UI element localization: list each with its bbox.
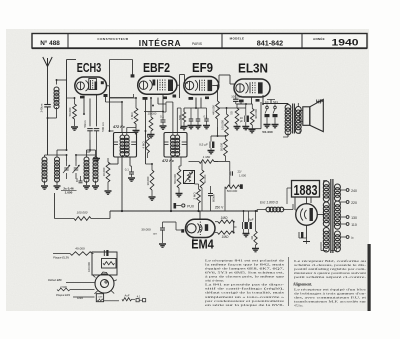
resistor 100.000 screen [218, 108, 229, 136]
text column divider rule [288, 257, 290, 306]
volume potentiometer [184, 171, 195, 184]
svg-text:b: b [352, 236, 354, 240]
svg-text:30.000: 30.000 [141, 228, 151, 232]
IF transformer MF1 [114, 133, 137, 158]
svg-text:5/1.000: 5/1.000 [262, 130, 273, 134]
loudspeaker HP [300, 99, 324, 131]
label 100.000 vertical [87, 262, 91, 272]
antenna coupling coil L1 [48, 80, 67, 118]
label 472 Kc MF2 [161, 159, 174, 163]
svg-text:240: 240 [351, 189, 357, 193]
wire HT 250V line [121, 210, 199, 212]
capacitor 0,1 screen [160, 112, 167, 129]
wire ECH3 anode to MF1 [106, 97, 123, 133]
wire top interstage [110, 97, 136, 99]
resistor 50.000 decoupling [219, 136, 227, 161]
svg-text:PU0: PU0 [187, 205, 194, 209]
scan shadow bar [368, 244, 371, 311]
svg-text:250 V: 250 V [215, 206, 224, 210]
svg-text:1.000: 1.000 [65, 191, 73, 195]
svg-text:AvF: AvF [124, 293, 130, 297]
electrolytic 8µF pair [243, 211, 254, 237]
svg-text:472 Kc: 472 Kc [112, 125, 125, 129]
label Defaut EBF [48, 278, 94, 283]
wire EF9 pins [196, 86, 218, 109]
svg-text:Exc 1.800 Ω: Exc 1.800 Ω [260, 201, 279, 205]
wire junction dots [47, 79, 264, 234]
svg-text:0,1: 0,1 [125, 168, 129, 172]
svg-text:50cm: 50cm [83, 120, 87, 128]
svg-text:1940: 1940 [332, 38, 359, 49]
wire step from detector line [91, 211, 110, 219]
svg-text:300: 300 [76, 177, 79, 182]
svg-text:40.000: 40.000 [75, 247, 85, 251]
svg-text:400.000: 400.000 [254, 109, 258, 119]
label Plaque EF9 [56, 293, 95, 297]
text column 1 [205, 258, 286, 307]
power pentode EL3N [234, 79, 270, 102]
label Plaque EL3N [53, 256, 69, 260]
wire ECH3 frame left [67, 60, 77, 151]
wire 1883 cathode down [299, 225, 310, 244]
svg-text:cm: cm [153, 232, 157, 236]
wire EL3N anode [243, 102, 288, 133]
svg-text:472 Kc: 472 Kc [161, 159, 174, 163]
ground under L3 [54, 186, 61, 189]
resistor AvF [122, 293, 135, 301]
wire EBF2 grid cap [110, 60, 135, 98]
field coil Exc 1.800 ohm [257, 201, 293, 212]
tube label EM4 [191, 236, 214, 251]
svg-text:50.000: 50.000 [203, 174, 207, 183]
svg-text:ANNÉE: ANNÉE [313, 36, 325, 41]
svg-text:MODELE: MODELE [230, 37, 245, 41]
capacitor 0,1 under EF9 [203, 112, 210, 129]
capacitor 0,5 µF [199, 136, 214, 154]
svg-text:500 cm: 500 cm [101, 122, 105, 132]
wire AVC line [110, 210, 257, 212]
switch rotor disc [93, 272, 117, 294]
svg-text:8µF: 8µF [248, 218, 254, 222]
diode-pentode EBF2 [138, 76, 177, 100]
wire detector bus right [214, 161, 230, 163]
svg-text:N° 488: N° 488 [40, 39, 60, 47]
wire MF1 top [110, 128, 137, 133]
resistor 2 MΩ osc grid [130, 98, 140, 134]
svg-text:transformateurs M.F. accordés: transformateurs M.F. accordés sur [294, 300, 368, 304]
capacitor 30.000 cm [141, 222, 166, 247]
resistor 40.000 tone feed [53, 247, 92, 256]
svg-text:100.000: 100.000 [77, 211, 88, 215]
resistor 1 MΩ horizontal [189, 155, 219, 163]
wire screen feed [227, 107, 246, 109]
svg-text:0,5 µF: 0,5 µF [199, 143, 208, 147]
power transformer primary windings [323, 181, 329, 252]
svg-text:1.048: 1.048 [98, 297, 103, 299]
tube label ECH3 [77, 61, 102, 75]
svg-text:0,1: 0,1 [203, 115, 207, 119]
svg-text:µF: µF [240, 120, 243, 123]
terminal b [340, 236, 354, 240]
svg-text:1MΩ: 1MΩ [222, 235, 229, 239]
ground under L2 [41, 186, 48, 189]
svg-text:EF9: EF9 [192, 60, 213, 75]
svg-text:2 MΩ: 2 MΩ [192, 192, 196, 200]
svg-text:25.000: 25.000 [148, 112, 157, 116]
svg-text:100.000: 100.000 [220, 120, 224, 130]
resistor 10.000 osc anode [102, 158, 112, 194]
resistor 1MΩ lower [215, 231, 234, 239]
svg-text:50.000: 50.000 [219, 142, 223, 151]
resistor 2 MΩ AVC [192, 184, 200, 211]
svg-text:472 kc.: 472 kc. [294, 304, 303, 308]
svg-text:10¹: 10¹ [265, 100, 269, 104]
capacitor under EF9 grid b [195, 112, 202, 129]
resistor 500 EBF2 cathode [178, 108, 187, 130]
svg-text:EM4: EM4 [191, 236, 214, 251]
wire transformer leads [321, 181, 337, 251]
capacitor under EF9 grid a [188, 112, 195, 129]
wire EL3N grid cap [219, 75, 235, 84]
svg-text:1MΩ: 1MΩ [221, 216, 228, 220]
tone assembly box [92, 252, 117, 275]
wire EBF2 pins [146, 75, 180, 132]
oscillator coil L4 [84, 150, 89, 185]
pentode EF9 [184, 77, 219, 100]
svg-text:1883: 1883 [294, 182, 318, 199]
resistor 4 ohm [250, 211, 259, 252]
svg-text:PARIS: PARIS [192, 42, 203, 46]
svg-text:Filtre: Filtre [77, 296, 83, 300]
terminal marks [136, 294, 146, 302]
wire detection [146, 131, 153, 164]
resistor 500.000 AVC [225, 184, 243, 211]
capacitor 22/1.000 [230, 162, 247, 187]
terminal 110 [340, 223, 357, 227]
wire EM4 grid line [163, 222, 182, 230]
svg-text:NF1: NF1 [273, 100, 279, 104]
svg-text:500.000: 500.000 [173, 174, 177, 184]
resistor 440.000 [211, 101, 219, 127]
svg-text:Plaque EL3N: Plaque EL3N [53, 256, 69, 260]
svg-text:500.000: 500.000 [227, 189, 238, 193]
tube label EBF2 [143, 60, 170, 75]
svg-text:4 MΩ: 4 MΩ [141, 141, 145, 149]
terminal 220 [340, 201, 357, 205]
wire output transformer leads [283, 103, 300, 137]
magic eye EM4 [181, 211, 215, 242]
svg-text:110: 110 [351, 223, 357, 227]
svg-text:841-842: 841-842 [257, 38, 283, 47]
wire MF1 bottom [108, 157, 130, 166]
wire screen bus [144, 112, 163, 118]
cap 300 padding [76, 176, 83, 183]
svg-text:130: 130 [351, 216, 357, 220]
svg-text:EBF2: EBF2 [143, 60, 170, 75]
capacitor EL3N cathode bypass [233, 95, 239, 105]
capacitor 50cm [83, 120, 93, 152]
svg-text:0,1: 0,1 [160, 115, 164, 119]
text column 2 [293, 259, 368, 308]
svg-text:1 MΩ: 1 MΩ [203, 155, 211, 159]
triode-hexode ECH3 [75, 77, 108, 98]
svg-text:10.000: 10.000 [102, 167, 106, 176]
label 472 Kc MF1 [112, 125, 125, 129]
svg-text:ECH3: ECH3 [77, 61, 102, 75]
label Filtre [77, 296, 83, 300]
wire 1883 connections [287, 188, 324, 218]
resistor 400.000 [250, 104, 257, 129]
tube label EL3N [238, 61, 268, 76]
svg-text:CONSTRUCTEUR: CONSTRUCTEUR [97, 37, 128, 41]
ground under L5 [92, 186, 99, 189]
output transformer primary [285, 105, 291, 135]
power transformer core [331, 179, 333, 253]
wire EF9 anode to EL3N grid [218, 75, 220, 83]
svg-text:100.000: 100.000 [87, 262, 91, 272]
label 5/1.000 tone [262, 130, 273, 134]
wire EF9 bus [184, 98, 207, 113]
svg-text:4,1: 4,1 [137, 294, 141, 298]
resistor 100.000 AVC [74, 211, 91, 221]
padder trimmer CV2 [73, 161, 80, 179]
header title box [32, 34, 367, 49]
capacitor 240cm antenna series [40, 103, 51, 155]
power transformer secondary windings [334, 184, 340, 252]
tube label EF9 [192, 60, 213, 75]
svg-text:50: 50 [230, 111, 234, 115]
antenna [43, 57, 52, 104]
svg-text:240cm: 240cm [40, 103, 44, 112]
svg-text:petit schéma séparé ci-contre.: petit schéma séparé ci-contre. [294, 275, 366, 279]
svg-text:Alignement.: Alignement. [293, 283, 312, 287]
svg-text:Plaque EF9: Plaque EF9 [56, 293, 71, 297]
output transformer core [293, 104, 295, 134]
tone switch capacitors [264, 100, 279, 128]
pick-up jack PU [174, 203, 194, 209]
wire osc coil top [87, 140, 96, 150]
svg-text:30.000: 30.000 [146, 176, 150, 185]
wire EF9 grid cap [180, 75, 189, 84]
label 250 V [215, 206, 224, 210]
svg-text:en série sur la plaque de la 6: en série sur la plaque de la 6V6. [205, 303, 284, 307]
resistor 30.000 vertical [146, 164, 156, 200]
resistor 50 EL3N cathode [230, 104, 241, 130]
wire EBF2 anode right [158, 104, 166, 112]
label 2x0,46/1.000 [61, 187, 77, 195]
label 10/1.000 [231, 95, 242, 99]
svg-text:INTÉGRA: INTÉGRA [139, 37, 182, 48]
resistor 1MΩ upper [215, 216, 233, 224]
ground under L4 [83, 186, 90, 189]
padder trimmer CV1 [63, 161, 70, 179]
resistor 4 MΩ between MF boxes [141, 134, 149, 158]
wire EL3N pins [237, 95, 263, 104]
terminal 130 [340, 216, 357, 220]
tone potentiometer 500.000 [102, 259, 117, 269]
label 2.500 [57, 285, 95, 291]
resistor 50.000 AVC [200, 162, 207, 212]
svg-text:440.000: 440.000 [211, 105, 215, 115]
svg-text:220: 220 [351, 201, 357, 205]
svg-text:10/1.000: 10/1.000 [231, 95, 242, 99]
resistor 50.000 ECH3 grid [67, 98, 79, 130]
wire EM4 right junction [234, 222, 237, 233]
wire MF1 secondary down [121, 157, 123, 211]
resistor 500.000 vertical [173, 166, 183, 197]
capacitor 0,1 under MF1 [125, 166, 135, 181]
svg-text:600cm: 600cm [212, 193, 216, 202]
wire ECH3 pins [84, 60, 110, 132]
tuning coil L2 [42, 155, 47, 185]
switch base box [96, 294, 119, 302]
svg-text:50.000: 50.000 [68, 107, 72, 116]
tuning coil L3 [55, 150, 67, 185]
capacitor 600 cm [208, 186, 216, 211]
electrolytic 10µF EL3N [237, 104, 249, 130]
svg-text:2 MΩ: 2 MΩ [130, 112, 134, 120]
resistor 25.000 [148, 98, 157, 138]
wire coil bus top [45, 155, 96, 161]
terminal 240 [340, 189, 357, 193]
svg-text:500: 500 [178, 115, 182, 120]
wire EF9 anode chain [211, 127, 226, 136]
output transformer secondary [295, 107, 301, 134]
oscillator coil L5 [93, 150, 98, 185]
svg-text:EL3N: EL3N [238, 61, 268, 76]
svg-text:1.000: 1.000 [239, 174, 246, 178]
rectifier label box 1883 [292, 181, 320, 200]
rectifier tube 1883 [296, 204, 318, 226]
capacitor on assembly [104, 250, 108, 256]
IF transformer MF2 [164, 133, 187, 158]
wire MF2 connections [166, 102, 185, 211]
wire left return to detector line [55, 193, 75, 219]
capacitor 500cm [93, 122, 105, 162]
svg-text:Défaut EBF: Défaut EBF [48, 278, 62, 282]
